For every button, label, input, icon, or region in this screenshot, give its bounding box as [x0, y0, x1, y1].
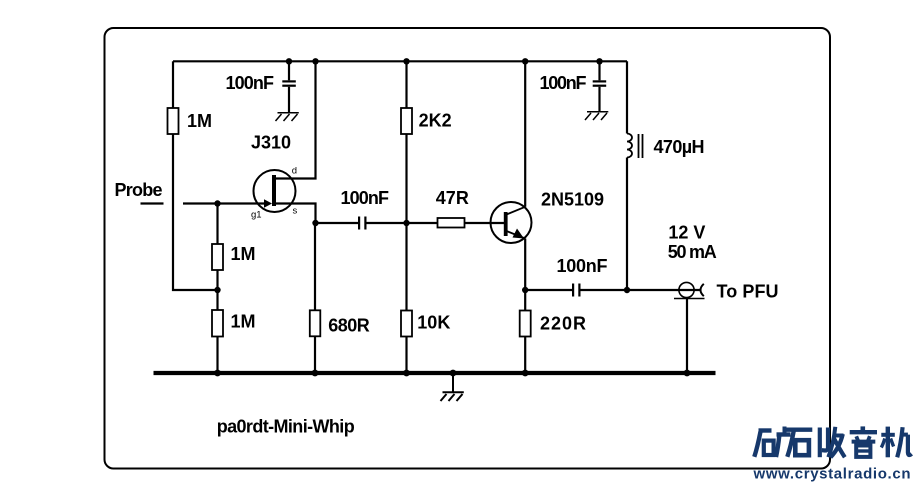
wire collector column [524, 61, 526, 207]
connector To PFU [674, 282, 705, 298]
ground (top right cap) [585, 112, 608, 120]
node divider mid [214, 287, 220, 293]
char ji [886, 427, 890, 458]
resistor 10K [401, 311, 412, 337]
ground (top left cap) [276, 113, 299, 121]
capacitor 100nF (top right bypass) [593, 80, 607, 86]
watermark CJK text [754, 426, 911, 457]
wire 2K2 column lower [405, 134, 407, 311]
border frame [105, 28, 831, 469]
node bus / divider [214, 370, 221, 377]
wire left column upper [172, 61, 174, 108]
char kuang [759, 428, 772, 432]
wire 10K bottom [405, 337, 407, 374]
wire probe terminal [141, 202, 164, 204]
wire signal line left [316, 222, 359, 224]
resistor 1M (gate upper) [212, 244, 223, 270]
svg-text:100nF: 100nF [226, 73, 275, 93]
svg-text:2N5109: 2N5109 [541, 189, 604, 209]
wire connector sleeve drop [686, 299, 688, 374]
svg-text:50 mA: 50 mA [668, 242, 717, 262]
wire gate column upper [216, 204, 218, 245]
svg-text:www.crystalradio.cn: www.crystalradio.cn [753, 466, 911, 483]
wire 680R column lower [314, 336, 316, 373]
node bus / 10K [403, 370, 410, 377]
svg-text:47R: 47R [436, 188, 469, 208]
svg-text:1M: 1M [187, 111, 212, 131]
transistor 2N5109 [491, 202, 532, 243]
wire left column lower [173, 134, 218, 290]
wire output line right [581, 289, 701, 291]
resistor 680R [310, 310, 321, 336]
svg-text:s: s [293, 206, 298, 217]
node top rail / collector [522, 58, 528, 64]
svg-text:100nF: 100nF [557, 256, 608, 276]
wire top cap left drop [288, 61, 290, 80]
node emitter / output [522, 287, 528, 293]
wire gate lead [183, 202, 265, 204]
char yin [860, 426, 865, 431]
svg-text:100nF: 100nF [341, 188, 390, 208]
svg-text:d: d [292, 166, 297, 177]
capacitor 100nF (output coupling) [572, 284, 581, 297]
node top rail / right cap [596, 58, 602, 64]
wire gate column middle [216, 270, 218, 310]
node top rail / left cap [286, 58, 292, 64]
wire 2K2 column upper [405, 61, 407, 108]
ground (bus) [441, 375, 464, 401]
wire signal line right [465, 222, 505, 224]
resistor 1M (antenna, top left) [168, 108, 179, 134]
wire J310 drain lead [276, 61, 316, 178]
resistor 220R [520, 311, 531, 337]
wire top cap right drop [598, 61, 600, 80]
node source / 680R [312, 220, 318, 226]
wire J310 source lead [276, 204, 316, 224]
svg-text:1M: 1M [231, 312, 256, 332]
node inductor / output [624, 287, 630, 293]
node bus / connector [684, 370, 691, 377]
svg-text:220R: 220R [540, 314, 586, 334]
svg-text:100nF: 100nF [540, 73, 587, 93]
wire emitter column [524, 239, 526, 311]
wire output line left [525, 289, 572, 291]
resistor 1M (gate lower) [212, 310, 223, 337]
node bus / 220R [522, 370, 529, 377]
transistor J310 [254, 170, 296, 212]
resistor 2K2 [401, 108, 412, 134]
wire 680R column upper [314, 223, 316, 310]
node bus / ground stub [450, 370, 457, 377]
char shi [787, 428, 813, 432]
svg-text:12 V: 12 V [668, 223, 705, 243]
inductor 470uH [627, 134, 643, 159]
svg-text:1M: 1M [231, 244, 256, 264]
svg-text:Probe: Probe [115, 180, 163, 200]
wire top cap right to ground [598, 87, 600, 112]
wire 220R bottom [524, 337, 526, 374]
svg-text:J310: J310 [251, 133, 291, 153]
wire inductor top [626, 61, 628, 133]
node gate / divider [214, 200, 220, 206]
svg-text:g1: g1 [251, 210, 262, 221]
wire inductor bottom [626, 158, 628, 291]
capacitor 100nF (series coupling) [358, 217, 367, 230]
svg-text:470µH: 470µH [654, 137, 705, 157]
resistor 47R [438, 218, 465, 228]
svg-text:To PFU: To PFU [717, 282, 779, 302]
svg-text:10K: 10K [417, 313, 450, 333]
wire gate column lower [216, 337, 218, 374]
node signal / 2K2-10K [403, 220, 409, 226]
ground bus [154, 371, 716, 375]
svg-text:680R: 680R [328, 316, 370, 336]
node top rail / drain riser [312, 58, 318, 64]
wire top cap left to ground [288, 87, 290, 113]
node bus / 680R [312, 370, 319, 377]
svg-text:pa0rdt-Mini-Whip: pa0rdt-Mini-Whip [217, 417, 355, 437]
svg-text:2K2: 2K2 [419, 111, 452, 131]
wire top rail [173, 60, 627, 62]
capacitor 100nF (top left bypass) [282, 80, 296, 86]
node top rail / 2K2 [403, 58, 409, 64]
char shou [818, 428, 822, 458]
wire signal line mid [367, 222, 438, 224]
